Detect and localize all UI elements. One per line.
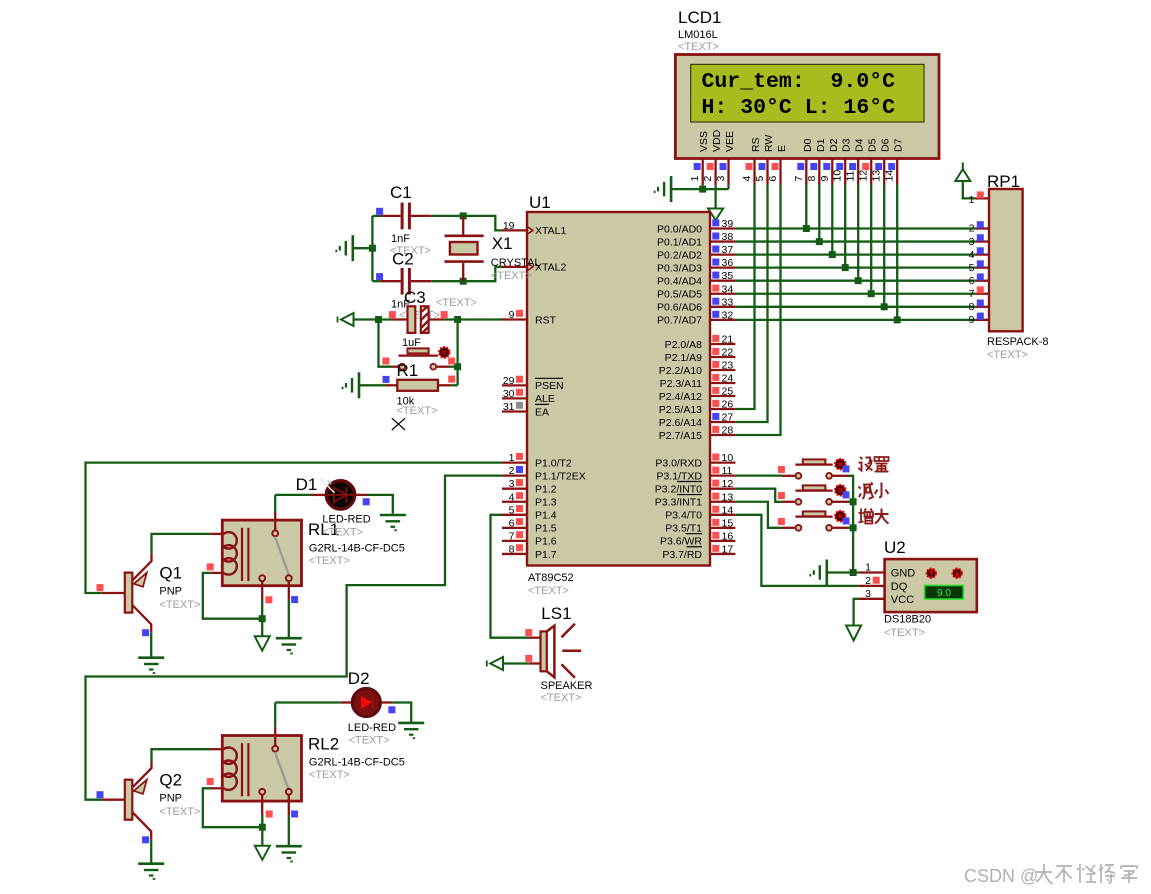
RL2 switch contacts: [259, 789, 265, 795]
svg-text:<TEXT>: <TEXT>: [309, 769, 350, 781]
label 设置 (set): [858, 457, 872, 471]
svg-text:LED-RED: LED-RED: [322, 514, 370, 526]
power terminal (left arrow at RST row): [341, 313, 354, 326]
U1 pin 7 P1.6: [502, 540, 527, 542]
wire LCD D0 to P0.0 bus: [805, 185, 807, 229]
wire P0.4 row to RP1: [735, 280, 975, 282]
svg-text:LED-RED: LED-RED: [348, 722, 396, 734]
junction RST left: [375, 316, 382, 323]
svg-text:P0.3/AD3: P0.3/AD3: [657, 262, 702, 274]
U1 pin 16 P3.6/WR: [710, 540, 735, 542]
ground (D1): [380, 514, 406, 517]
U1 pin 12 P3.2/INT0: [710, 488, 735, 490]
RP1 pin 3: [976, 240, 989, 242]
U1 pin 11 P3.1/TXD: [710, 474, 735, 476]
node square button2 left: [778, 492, 785, 499]
wire C1 left / C2 left vertical: [371, 216, 373, 281]
svg-text:LM016L: LM016L: [678, 29, 718, 41]
svg-text:H: 30°C L: 16°C: H: 30°C L: 16°C: [702, 96, 896, 120]
RP1 pin 9: [976, 319, 989, 321]
svg-text:5: 5: [969, 262, 975, 274]
svg-text:D2: D2: [828, 138, 840, 152]
wire U2 pin3 to power arrow: [854, 599, 859, 626]
svg-text:LS1: LS1: [541, 604, 571, 623]
node square C2: [376, 273, 383, 280]
svg-text:C2: C2: [392, 250, 414, 269]
wire C2 right to XTAL2: [431, 267, 502, 281]
U1 pin 4 P1.3: [502, 501, 527, 503]
wire LCD E to U1 P2.7: [735, 185, 780, 436]
node square Q1 base: [97, 584, 104, 591]
U1 pin 32 P0.7/AD7: [710, 319, 735, 321]
svg-text:3: 3: [969, 236, 975, 248]
svg-text:RW: RW: [763, 135, 775, 152]
svg-text:34: 34: [722, 283, 734, 295]
microcontroller U1 AT89C52 body: [527, 212, 710, 566]
wire LCD D6 to P0.6 bus: [883, 185, 885, 307]
node square button left: [382, 358, 389, 365]
node square button1 right: [843, 465, 850, 472]
svg-text:31: 31: [503, 401, 515, 413]
wire R1 right: [451, 384, 457, 386]
svg-text:7: 7: [509, 530, 515, 542]
wire LCD D5 to P0.5 bus: [870, 185, 872, 294]
node square RL2 contact1: [266, 811, 273, 818]
U1 pin 19 XTAL1: [502, 229, 527, 231]
wire Q1 emitter to RL1 coil: [152, 534, 211, 554]
svg-text:7: 7: [969, 288, 975, 300]
svg-text:C1: C1: [390, 183, 412, 202]
svg-text:D4: D4: [854, 138, 866, 152]
wire: [796, 473, 802, 479]
junction (LCD pin1 bus): [699, 186, 706, 193]
svg-text:11: 11: [845, 170, 857, 181]
wire: [796, 525, 802, 531]
svg-text:1: 1: [865, 562, 871, 574]
wire P0.6 row to RP1: [735, 306, 975, 308]
node square C1: [376, 208, 383, 215]
svg-text:35: 35: [722, 270, 734, 282]
RP1 pin 7: [976, 293, 989, 295]
svg-text:5: 5: [509, 504, 515, 516]
svg-text:8: 8: [969, 301, 975, 313]
node square LS1 pin1: [525, 629, 532, 636]
node square R1 left: [383, 376, 390, 383]
svg-text:AT89C52: AT89C52: [528, 572, 574, 584]
svg-text:15: 15: [722, 517, 734, 529]
wire LCD D3 to P0.3 bus: [844, 185, 846, 268]
U1 pin 6 P1.5: [502, 527, 527, 529]
svg-text:RL2: RL2: [308, 735, 339, 754]
wire Q2 emitter to RL2 coil: [152, 749, 211, 761]
svg-text:DQ: DQ: [891, 581, 908, 593]
svg-text:8: 8: [509, 543, 515, 555]
svg-text:P2.2/A10: P2.2/A10: [659, 365, 702, 377]
svg-text:9: 9: [969, 314, 975, 326]
svg-text:36: 36: [722, 257, 734, 269]
svg-text:7: 7: [793, 176, 805, 182]
wire ground to R1: [359, 384, 386, 386]
junction U2 pin1: [850, 569, 857, 576]
LED D2 LED-RED: [341, 701, 352, 703]
wire D2 to ground: [392, 703, 411, 722]
crystal X1: [462, 216, 464, 235]
svg-text:30: 30: [503, 388, 515, 400]
wire reset button right to RST net: [449, 366, 458, 368]
svg-text:RST: RST: [535, 314, 557, 326]
node square RL2 coil-: [207, 778, 214, 785]
svg-text:27: 27: [722, 412, 734, 424]
svg-text:24: 24: [722, 373, 734, 385]
U1 pin 31 EA: [502, 410, 527, 412]
svg-text:D1: D1: [815, 138, 827, 152]
svg-text:2: 2: [969, 223, 975, 235]
U1 pin 10 P3.0/RXD: [710, 461, 735, 463]
svg-text:P3.0/RXD: P3.0/RXD: [655, 457, 702, 469]
overline INT0: [677, 481, 702, 483]
svg-text:23: 23: [722, 360, 734, 372]
junction D2/P0.2: [829, 251, 836, 258]
svg-text:9: 9: [819, 176, 831, 182]
U1 pin 38 P0.1/AD1: [710, 240, 735, 242]
svg-text:13: 13: [722, 491, 734, 503]
svg-text:28: 28: [722, 425, 734, 437]
ground (left of LCD): [670, 176, 673, 202]
svg-text:22: 22: [722, 347, 734, 359]
RL2 switch common pin: [272, 746, 278, 752]
svg-text:10: 10: [832, 170, 844, 182]
svg-text:PNP: PNP: [159, 586, 182, 598]
svg-text:X1: X1: [492, 234, 513, 253]
svg-text:25: 25: [722, 386, 734, 398]
junction D3/P0.3: [842, 264, 849, 271]
node square button3 right: [843, 517, 850, 524]
svg-text:2: 2: [702, 176, 714, 182]
svg-text:Cur_tem: 9.0°C: Cur_tem: 9.0°C: [702, 70, 896, 94]
U1 pin 24 P2.3/A11: [710, 382, 735, 384]
svg-text:8: 8: [806, 176, 818, 182]
wire P1.4 to speaker: [491, 515, 529, 638]
svg-text:2: 2: [509, 465, 515, 477]
svg-text:VEE: VEE: [724, 131, 736, 152]
svg-text:<TEXT>: <TEXT>: [349, 735, 390, 747]
svg-text:P1.4: P1.4: [535, 510, 557, 522]
U1 pin 26 P2.5/A13: [710, 408, 735, 410]
svg-text:<TEXT>: <TEXT>: [322, 527, 363, 539]
svg-text:Q2: Q2: [159, 771, 182, 790]
wire P0.5 row to RP1: [735, 293, 975, 295]
svg-text:P1.1/T2EX: P1.1/T2EX: [535, 470, 586, 482]
svg-text:P3.2/INT0: P3.2/INT0: [655, 484, 702, 496]
junction button right: [454, 363, 461, 370]
resistor R1: [386, 384, 398, 386]
wire LCD D1 to P0.1 bus: [818, 185, 820, 242]
svg-text:1: 1: [969, 194, 975, 206]
ground (crystal): [351, 235, 354, 261]
svg-text:VDD: VDD: [711, 129, 723, 152]
U1 pin 29 PSEN: [502, 384, 527, 386]
wire VDD drop to power arrow: [714, 189, 716, 208]
junction D6/P0.6: [881, 303, 888, 310]
LCD screen: [691, 64, 924, 122]
LED D1 LED-RED (lit): [311, 494, 325, 496]
speaker sound rays: [562, 624, 575, 637]
svg-text:Q1: Q1: [159, 564, 182, 583]
U1 pin 22 P2.1/A9: [710, 356, 735, 358]
power terminal (down arrow U2): [846, 626, 861, 641]
svg-text:P1.7: P1.7: [535, 549, 557, 561]
svg-text:<TEXT>: <TEXT>: [491, 270, 532, 282]
svg-text:RESPACK-8: RESPACK-8: [987, 336, 1049, 348]
svg-text:38: 38: [722, 231, 734, 243]
U1 pin 34 P0.5/AD5: [710, 293, 735, 295]
wire LCD D7 to P0.7 bus: [896, 185, 898, 320]
RL1 coil: [210, 533, 224, 535]
X mark: [392, 418, 405, 430]
RL2 coil: [210, 748, 224, 750]
svg-text:P0.0/AD0: P0.0/AD0: [657, 223, 702, 235]
node square R1 right: [448, 376, 455, 383]
ground (RL1): [276, 637, 302, 640]
junction RL2: [259, 824, 266, 831]
overline WR: [686, 533, 703, 535]
svg-text:14: 14: [884, 170, 896, 182]
U1 pin 1 P1.0/T2: [502, 461, 527, 463]
wire LCD D4 to P0.4 bus: [857, 185, 859, 281]
U1 pin 8 P1.7: [502, 553, 527, 555]
node square button1 left: [778, 466, 785, 473]
svg-text:D1: D1: [296, 475, 318, 494]
svg-text:<TEXT>: <TEXT>: [987, 349, 1028, 361]
svg-text:3: 3: [509, 478, 515, 490]
U1 pin 35 P0.4/AD4: [710, 280, 735, 282]
svg-text:<TEXT>: <TEXT>: [309, 555, 350, 567]
svg-text:P2.0/A8: P2.0/A8: [665, 339, 703, 351]
svg-text:<TEXT>: <TEXT>: [528, 585, 569, 597]
svg-text:CRYSTAL: CRYSTAL: [491, 257, 541, 269]
svg-text:P2.3/A11: P2.3/A11: [660, 378, 703, 390]
wire RL2 contact1 down: [261, 815, 263, 846]
junction button3 common: [850, 524, 857, 531]
wire: [796, 499, 802, 505]
svg-text:6: 6: [509, 517, 515, 529]
wire RL2 common to D2: [274, 703, 276, 728]
svg-text:4: 4: [509, 491, 515, 503]
wire P0.0 row to RP1: [735, 227, 975, 229]
junction D0/P0.0: [803, 225, 810, 232]
LCD display LCD1 body: [675, 55, 939, 159]
svg-text:P2.6/A14: P2.6/A14: [659, 417, 702, 429]
junction C1C2 ground: [369, 245, 376, 252]
svg-text:39: 39: [722, 218, 734, 230]
svg-text:9: 9: [509, 309, 515, 321]
label 减小 (decrease): [859, 483, 874, 500]
power terminal (down arrow at U1 pin39): [708, 209, 723, 221]
node square button right: [448, 358, 455, 365]
svg-text:P3.7/RD: P3.7/RD: [662, 549, 702, 561]
svg-text:P3.1/TXD: P3.1/TXD: [656, 470, 702, 482]
svg-text:P0.1/AD1: P0.1/AD1: [657, 236, 702, 248]
RL1 switch contacts: [259, 575, 265, 581]
U1 pin 23 P2.2/A10: [710, 369, 735, 371]
svg-text:P2.7/A15: P2.7/A15: [659, 430, 702, 442]
svg-text:R1: R1: [397, 361, 419, 380]
svg-text:D2: D2: [348, 669, 370, 688]
U2 down button icon: [953, 569, 962, 578]
wire LCD D2 to P0.2 bus: [831, 185, 833, 255]
svg-text:6: 6: [969, 275, 975, 287]
node square D2: [388, 706, 395, 713]
node square Q2 base: [97, 791, 104, 798]
svg-text:G2RL-14B-CF-DC5: G2RL-14B-CF-DC5: [309, 757, 405, 769]
power terminal (up arrow above RP1): [955, 169, 970, 181]
node square C3 left: [389, 311, 396, 318]
wire P0.7 row to RP1: [735, 319, 975, 321]
svg-text:<TEXT>: <TEXT>: [678, 41, 719, 53]
svg-text:P1.0/T2: P1.0/T2: [535, 457, 572, 469]
svg-text:6: 6: [767, 176, 779, 182]
U2 up button icon: [927, 569, 936, 578]
overline INT1: [677, 494, 702, 496]
svg-text:P0.6/AD6: P0.6/AD6: [657, 302, 702, 314]
U1 pin 30 ALE: [502, 397, 527, 399]
node square RL1 contact1: [265, 596, 272, 603]
wire RST row: [354, 318, 392, 320]
node square C3 right: [441, 311, 448, 318]
transistor Q2 PNP: [125, 780, 133, 820]
svg-text:37: 37: [722, 244, 734, 256]
svg-text:3: 3: [865, 588, 871, 600]
svg-text:P2.4/A12: P2.4/A12: [659, 391, 702, 403]
junction crystal top: [460, 212, 467, 219]
svg-text:DS18B20: DS18B20: [884, 614, 931, 626]
ground (D2): [398, 722, 424, 725]
svg-text:3: 3: [715, 176, 727, 182]
node square Q1 collector: [142, 629, 149, 636]
svg-text:U1: U1: [529, 193, 551, 212]
svg-text:14: 14: [722, 504, 734, 516]
svg-text:1: 1: [689, 176, 701, 182]
ground (U2): [825, 560, 828, 586]
svg-text:<TEXT>: <TEXT>: [397, 405, 438, 417]
U1 pin 39 P0.0/AD0: [710, 227, 735, 229]
svg-text:13: 13: [871, 170, 883, 182]
RL1 switch blade: [275, 537, 289, 575]
svg-text:SPEAKER: SPEAKER: [541, 680, 593, 692]
junction RL1: [259, 615, 266, 622]
junction button2 common: [850, 498, 857, 505]
svg-text:17: 17: [722, 543, 734, 555]
wire LCD RW to U1 P2.6: [735, 185, 767, 423]
svg-text:19: 19: [503, 220, 515, 232]
node square button2 right: [843, 491, 850, 498]
wire LCD RS to U1 P2.5: [735, 185, 754, 410]
svg-text:P1.3: P1.3: [535, 497, 557, 509]
junction RST right: [454, 316, 461, 323]
svg-text:P2.1/A9: P2.1/A9: [665, 352, 703, 364]
reset pushbutton: [399, 364, 405, 370]
node square RL1 contact2: [291, 596, 298, 603]
svg-text:<TEXT>: <TEXT>: [884, 627, 925, 639]
speaker LS1: [529, 637, 541, 639]
junction D1/P0.1: [816, 238, 823, 245]
relay RL2 body: [222, 736, 301, 802]
svg-text:D5: D5: [867, 138, 879, 152]
svg-text:P1.2: P1.2: [535, 484, 557, 496]
node square RL2 contact2: [291, 811, 298, 818]
U1 pin 21 P2.0/A8: [710, 343, 735, 345]
wire C1 right to XTAL1: [431, 216, 502, 231]
svg-text:C3: C3: [404, 288, 426, 307]
svg-text:12: 12: [722, 478, 734, 490]
RP1 pin 5: [976, 266, 989, 268]
wire RL2 contact2 down: [288, 815, 290, 845]
RP1 pin 8: [976, 306, 989, 308]
wire D1 to ground: [367, 495, 393, 514]
wire RL1 coil- loop: [203, 573, 262, 619]
U1 pin 27 P2.6/A14: [710, 421, 735, 423]
svg-text:10: 10: [722, 452, 734, 464]
U1 pin 28 P2.7/A15: [710, 434, 735, 436]
svg-text:P1.6: P1.6: [535, 536, 557, 548]
U1 pin 17 P3.7/RD: [710, 553, 735, 555]
wire Q2 collector to ground: [150, 839, 152, 862]
svg-text:9.0: 9.0: [937, 588, 951, 599]
resistor pack RP1 body: [989, 189, 1023, 331]
wire P3.3 to button3: [735, 502, 781, 528]
svg-text:P3.3/INT1: P3.3/INT1: [655, 497, 702, 509]
svg-text:P3.6/WR: P3.6/WR: [660, 536, 702, 548]
wire RL1 contact1 down: [261, 600, 263, 637]
ground (Q2): [138, 862, 164, 865]
U1 pin 18 XTAL2: [502, 266, 527, 268]
wire LCD pins 1-3 to ground bus: [702, 185, 704, 189]
junction crystal bottom: [460, 278, 467, 285]
svg-text:P0.7/AD7: P0.7/AD7: [657, 315, 702, 327]
U1 pin 13 P3.3/INT1: [710, 501, 735, 503]
power terminal (left arrow at speaker): [490, 657, 503, 670]
ground (R1): [358, 372, 361, 398]
svg-text:PNP: PNP: [159, 793, 182, 805]
svg-text:33: 33: [722, 296, 734, 308]
svg-text:ALE: ALE: [535, 393, 555, 405]
svg-text:P0.2/AD2: P0.2/AD2: [657, 249, 702, 261]
ground (Q1): [138, 656, 164, 659]
junction D7/P0.7: [894, 316, 901, 323]
relay RL1 body: [222, 520, 301, 586]
wire P3.1 to button1: [735, 474, 781, 476]
wire Q1 collector to ground: [150, 632, 152, 656]
transistor Q1 PNP: [125, 573, 133, 613]
node square D1: [363, 498, 370, 505]
wire P0.3 row to RP1: [735, 266, 975, 268]
svg-text:G2RL-14B-CF-DC5: G2RL-14B-CF-DC5: [309, 543, 405, 555]
wire RL2 coil- loop: [203, 788, 262, 827]
svg-text:1: 1: [509, 452, 515, 464]
wire P3.4 to U2 DQ: [735, 515, 858, 586]
svg-text:21: 21: [722, 334, 734, 346]
svg-text:LCD1: LCD1: [678, 8, 721, 27]
node square button3 left: [778, 518, 785, 525]
power terminal (down arrow RL1): [255, 636, 270, 650]
U1 pin 14 P3.4/T0: [710, 514, 735, 516]
svg-text:26: 26: [722, 399, 734, 411]
svg-text:<TEXT>: <TEXT>: [159, 599, 200, 611]
wire RL1 contact2 down: [288, 600, 290, 638]
U1 pin 33 P0.6/AD6: [710, 306, 735, 308]
RP1 pin 6: [976, 280, 989, 282]
junction D4/P0.4: [855, 277, 862, 284]
